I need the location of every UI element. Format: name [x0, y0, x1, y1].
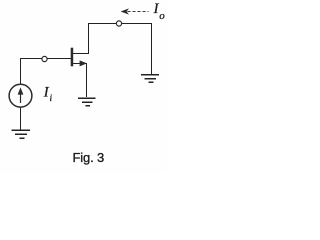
- wire top rail: [88, 23, 152, 25]
- caption Fig. 3: [73, 150, 105, 165]
- node on gate lead: [42, 56, 47, 61]
- wire right drop to ground: [151, 23, 153, 74]
- wire source-to-ground below current source: [20, 107, 22, 130]
- ground (middle, under transistor source): [78, 98, 95, 106]
- svg-text:i: i: [50, 94, 53, 104]
- current source Ii (circle with up arrow): [9, 84, 32, 107]
- wire drain riser: [73, 23, 89, 54]
- wire gate lead: [20, 58, 71, 60]
- current arrow Io (dashed, pointing left): [121, 8, 149, 14]
- node output terminal on top rail: [116, 21, 121, 26]
- wire source drop of transistor: [86, 63, 88, 97]
- transistor Q1 (NMOS, simplified symbol): [71, 48, 87, 67]
- wire left riser from source top: [20, 58, 22, 84]
- svg-text:o: o: [159, 10, 165, 22]
- ground (right, under output rail): [141, 75, 159, 83]
- ground (left, under current source): [12, 130, 30, 138]
